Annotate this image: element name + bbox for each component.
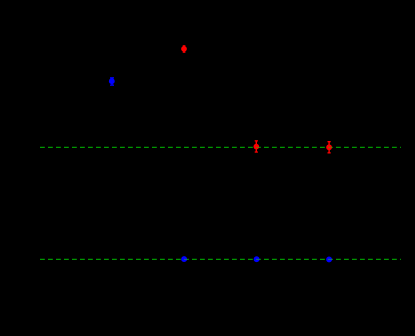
dash streak over red C [256, 147, 259, 148]
red errorbar point D (on upper line) [326, 141, 332, 154]
blue point E (on lower line) [181, 256, 187, 262]
blue point F (on lower line) [254, 256, 260, 262]
red errorbar point A (top) [181, 45, 187, 53]
dash streak over red D [328, 147, 332, 148]
red errorbar point C (on upper line) [253, 140, 259, 153]
blue point G (on lower line) [326, 256, 332, 262]
dash streak over blue F [256, 259, 260, 260]
lower green dashed line [40, 258, 401, 260]
blue errorbar point B [109, 77, 115, 86]
dash streak over blue G [328, 259, 332, 260]
dash streak over blue E [184, 259, 187, 260]
upper green dashed line [40, 146, 401, 148]
